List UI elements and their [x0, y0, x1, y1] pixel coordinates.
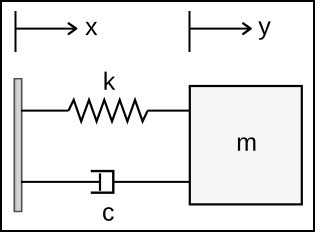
mass m block [190, 86, 302, 204]
label x [85, 22, 97, 35]
x-axis arrow shaft [15, 28, 74, 30]
damper piston plate [99, 173, 101, 190]
spring k coil [69, 100, 148, 122]
spring k wire (wall to coil) [21, 110, 69, 112]
damper cylinder [91, 171, 114, 193]
label k [104, 72, 115, 90]
label m [238, 137, 256, 150]
damper c rod (wall to piston) [21, 181, 100, 183]
x-axis reference tick [15, 11, 17, 52]
label y [258, 21, 270, 39]
spring k wire (coil to mass) [147, 110, 191, 112]
y-axis arrowhead [243, 23, 251, 34]
y-axis arrow shaft [189, 28, 249, 30]
damper rod (cylinder to mass) [113, 181, 191, 183]
x-axis arrowhead [69, 23, 77, 34]
y-axis reference tick [189, 11, 191, 52]
label c [103, 207, 114, 221]
